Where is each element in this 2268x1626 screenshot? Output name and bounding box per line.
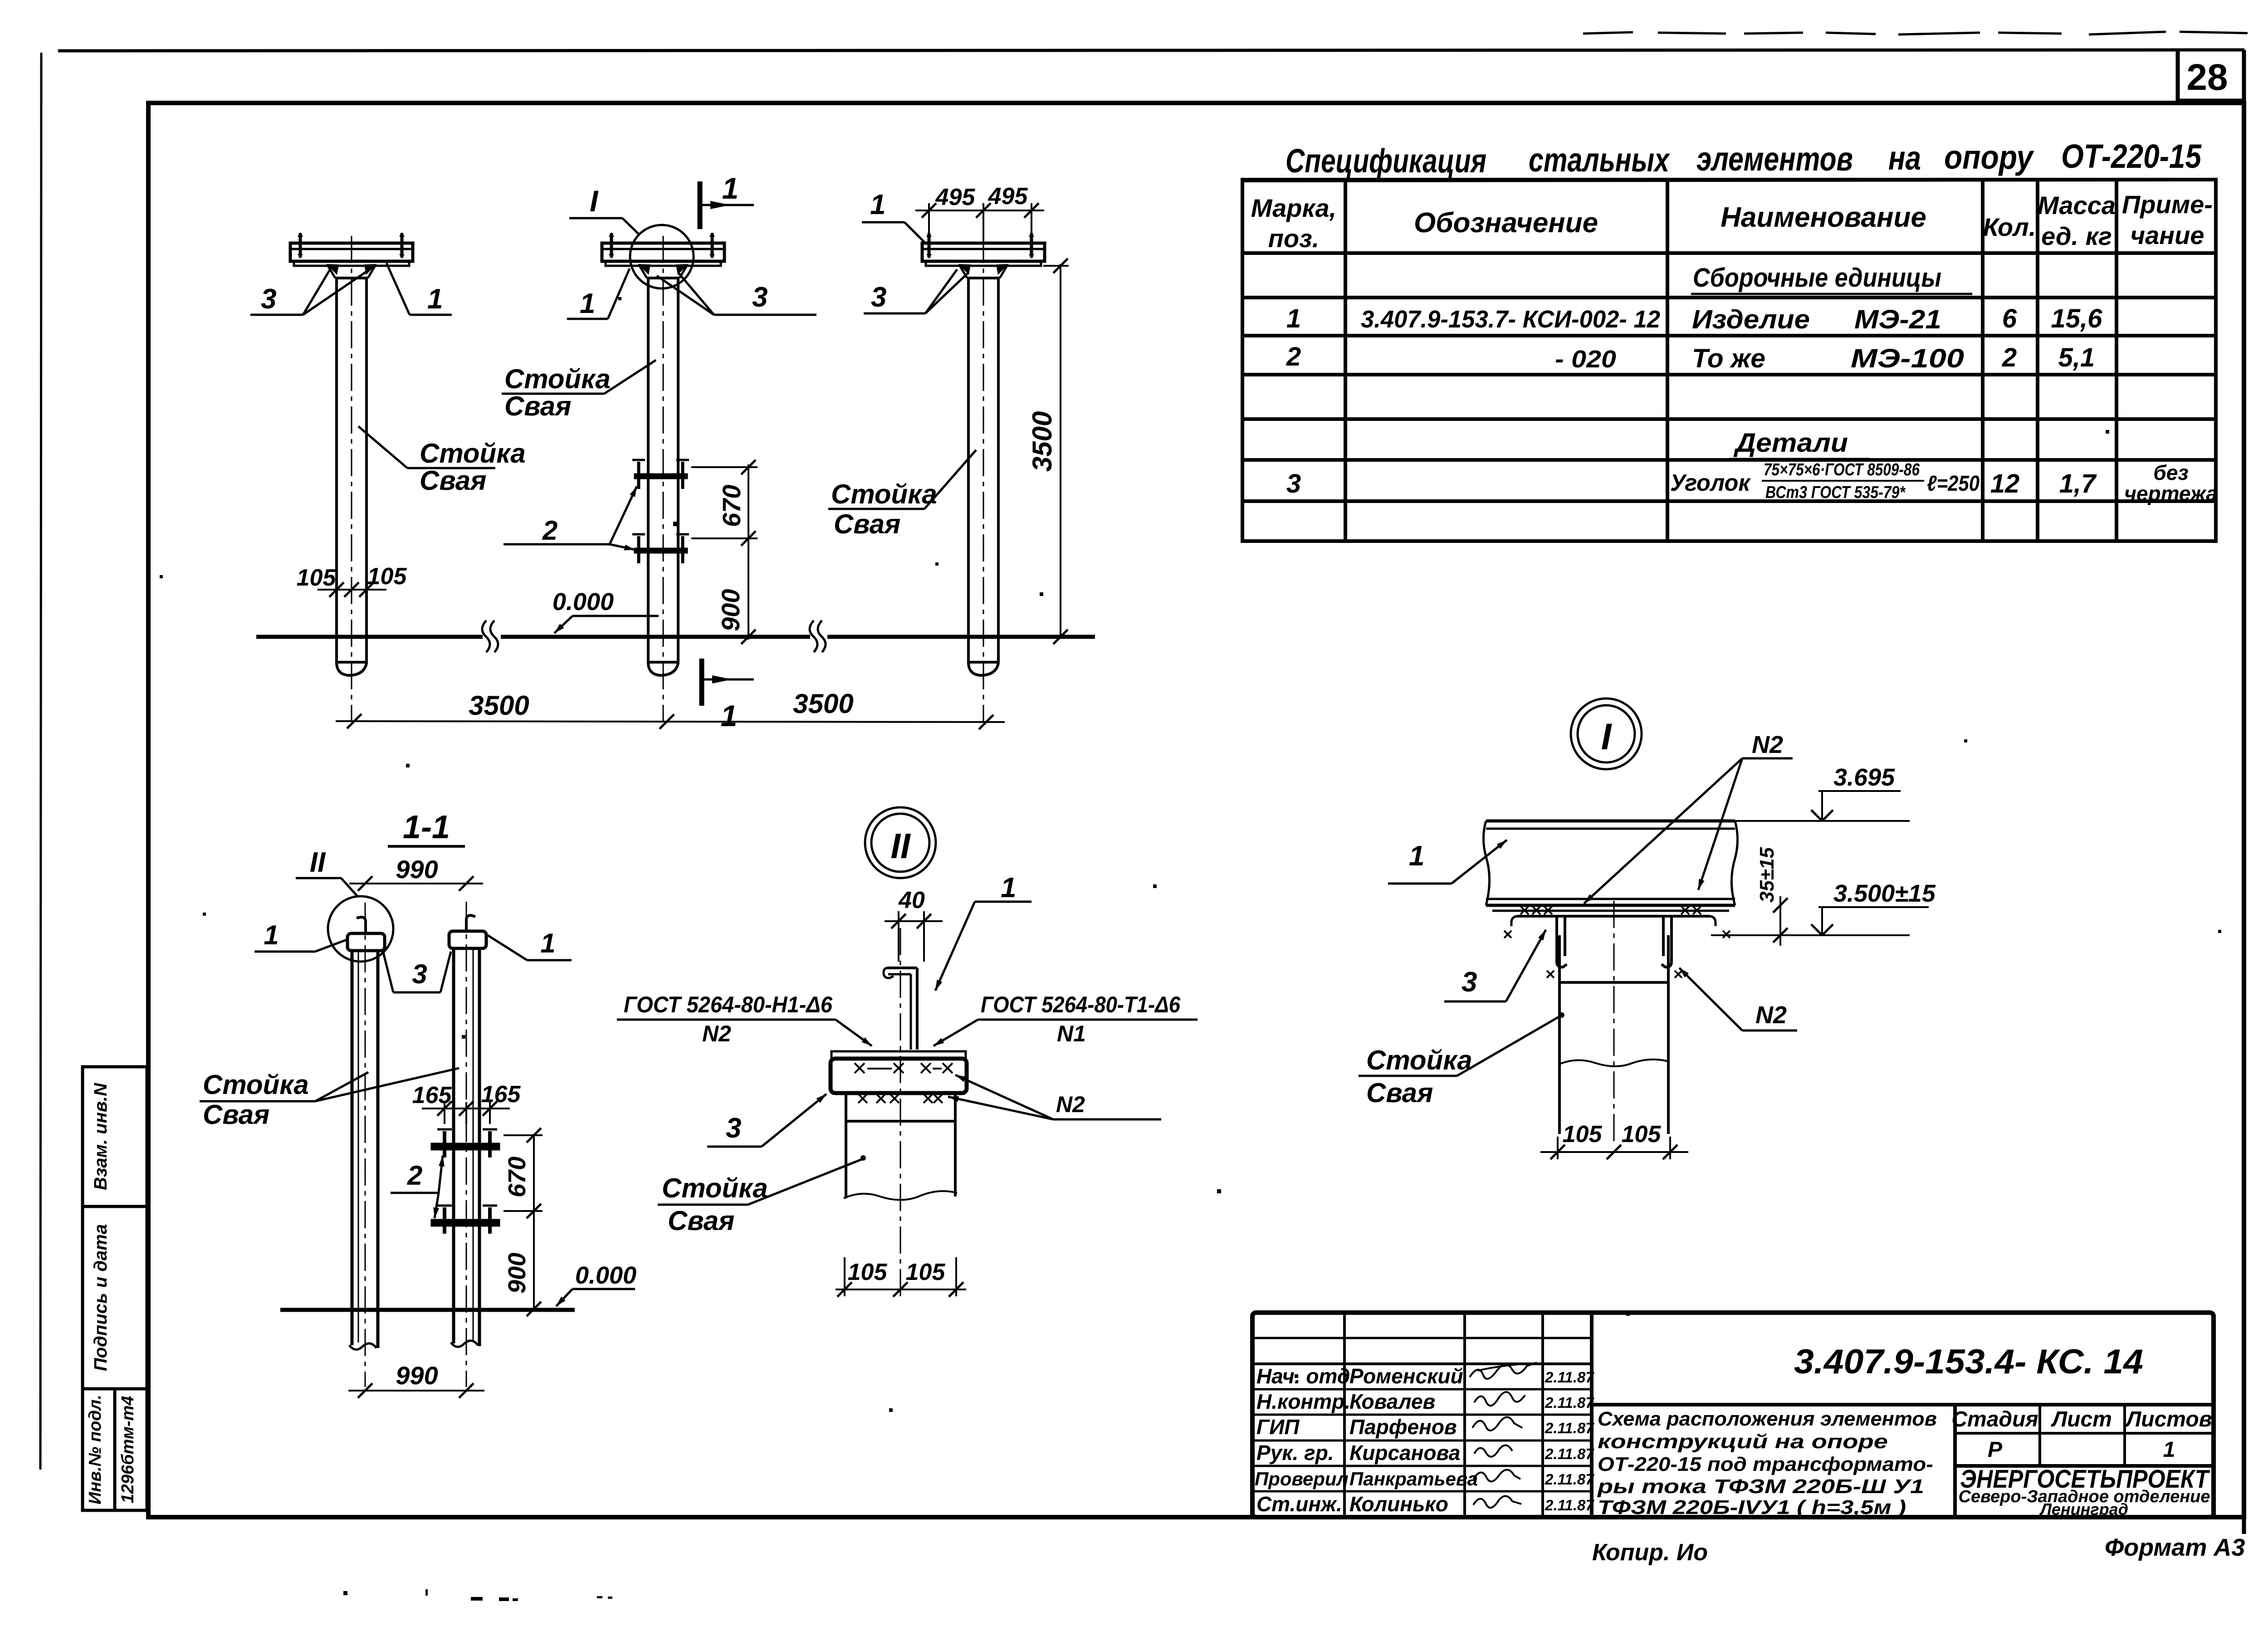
svg-text:1,7: 1,7	[2059, 469, 2097, 498]
svg-text:670: 670	[717, 485, 746, 527]
svg-text:3500: 3500	[1027, 411, 1057, 472]
svg-text:165: 165	[481, 1081, 521, 1108]
svg-text:3: 3	[261, 283, 276, 315]
svg-text:105: 105	[906, 1259, 946, 1285]
svg-text:ГИП: ГИП	[1256, 1415, 1300, 1439]
svg-text:15,6: 15,6	[2051, 304, 2103, 333]
svg-text:Лист: Лист	[2051, 1407, 2112, 1431]
svg-text:Рук. гр.: Рук. гр.	[1256, 1441, 1334, 1465]
svg-text:Стойка: Стойка	[1366, 1045, 1472, 1075]
svg-text:Парфенов: Парфенов	[1349, 1415, 1457, 1439]
svg-text:6: 6	[2002, 304, 2017, 333]
svg-text:1: 1	[722, 171, 739, 205]
svg-text:2: 2	[1286, 342, 1301, 371]
svg-text:ℓ=250: ℓ=250	[1927, 472, 1980, 496]
svg-text:Наименование: Наименование	[1721, 202, 1926, 233]
svg-text:1: 1	[870, 189, 885, 220]
svg-text:Кирсанова: Кирсанова	[1349, 1441, 1460, 1465]
svg-text:То же: То же	[1692, 344, 1765, 373]
svg-text:- 020: - 020	[1555, 346, 1616, 373]
svg-text:3: 3	[726, 1113, 741, 1144]
svg-text:105: 105	[297, 565, 337, 591]
svg-text:ры тока ТФЗМ 220Б-Ш У1: ры тока ТФЗМ 220Б-Ш У1	[1597, 1475, 1924, 1498]
svg-text:2.11.87: 2.11.87	[1545, 1369, 1594, 1386]
svg-text:990: 990	[396, 1361, 438, 1390]
svg-text:Подпись и дата: Подпись и дата	[91, 1224, 111, 1371]
svg-text:3: 3	[1461, 967, 1477, 998]
svg-text:Колинько: Колинько	[1349, 1492, 1448, 1516]
svg-text:ед. кг: ед. кг	[2041, 222, 2112, 250]
svg-text:поз.: поз.	[1268, 224, 1320, 253]
svg-text:1: 1	[1001, 872, 1016, 903]
svg-text:Свая: Свая	[834, 509, 900, 539]
svg-text:N2: N2	[1056, 1092, 1085, 1117]
svg-text:чертежа: чертежа	[2124, 482, 2218, 505]
svg-text:12: 12	[1990, 469, 2020, 498]
svg-text:Стойка: Стойка	[504, 364, 611, 394]
svg-text:Свая: Свая	[203, 1099, 269, 1130]
svg-text:Кол.: Кол.	[1983, 213, 2036, 241]
svg-text:2.11.87: 2.11.87	[1545, 1420, 1594, 1436]
svg-text:35±15: 35±15	[1756, 847, 1778, 903]
svg-text:2.11.87: 2.11.87	[1545, 1471, 1594, 1488]
svg-text:N2: N2	[702, 1021, 731, 1046]
svg-text:3.407.9-153.7- КСИ-002- 12: 3.407.9-153.7- КСИ-002- 12	[1361, 306, 1660, 333]
svg-text:75×75×6·ГОСТ 8509-86: 75×75×6·ГОСТ 8509-86	[1764, 460, 1920, 479]
svg-text:Марка,: Марка,	[1251, 194, 1336, 222]
svg-text:МЭ-100: МЭ-100	[1851, 344, 1964, 373]
svg-text:I: I	[590, 184, 599, 218]
svg-text:ОТ-220-15 под трансформато-: ОТ-220-15 под трансформато-	[1598, 1453, 1933, 1475]
svg-text:Схема расположения элементов: Схема расположения элементов	[1598, 1408, 1937, 1430]
svg-text:105: 105	[1622, 1121, 1662, 1147]
svg-text:1: 1	[721, 699, 738, 732]
svg-text:105: 105	[1563, 1121, 1603, 1147]
svg-text:элементов: элементов	[1696, 140, 1853, 178]
svg-text:МЭ-21: МЭ-21	[1854, 305, 1941, 334]
svg-text:Взам. инв.N: Взам. инв.N	[91, 1083, 111, 1190]
svg-text:Свая: Свая	[668, 1206, 734, 1236]
svg-text:чание: чание	[2131, 221, 2204, 249]
svg-text:Ленинград: Ленинград	[2039, 1500, 2128, 1519]
svg-text:без: без	[2153, 461, 2189, 484]
svg-text:3500: 3500	[793, 688, 853, 719]
svg-text:Панкратьева: Панкратьева	[1349, 1468, 1478, 1489]
svg-text:2: 2	[407, 1160, 422, 1191]
svg-text:1: 1	[1286, 304, 1301, 333]
svg-text:Свая: Свая	[504, 391, 571, 421]
svg-text:0.000: 0.000	[552, 588, 614, 615]
svg-text:Стойка: Стойка	[203, 1069, 309, 1100]
svg-text:Инв.№ подл.: Инв.№ подл.	[86, 1395, 105, 1504]
svg-text:N2: N2	[1755, 1001, 1787, 1029]
svg-text:900: 900	[503, 1253, 531, 1294]
svg-text:28: 28	[2186, 57, 2228, 98]
svg-text:Ковалев: Ковалев	[1349, 1390, 1435, 1413]
svg-text:1296бтм-т4: 1296бтм-т4	[118, 1396, 137, 1503]
svg-text:ТФЗМ 220Б-IVУ1 ( h=3,5м ): ТФЗМ 220Б-IVУ1 ( h=3,5м )	[1598, 1496, 1906, 1519]
svg-text:Уголок: Уголок	[1670, 470, 1751, 496]
svg-text:N2: N2	[1752, 731, 1783, 758]
svg-text:1: 1	[2163, 1438, 2175, 1462]
svg-text:0.000: 0.000	[575, 1262, 636, 1289]
svg-text:2.11.87: 2.11.87	[1545, 1497, 1594, 1514]
svg-text:2.11.87: 2.11.87	[1545, 1445, 1594, 1462]
svg-text:165: 165	[412, 1082, 452, 1108]
svg-text:105: 105	[848, 1259, 888, 1285]
svg-text:2.11.87: 2.11.87	[1545, 1394, 1594, 1411]
svg-text:Приме-: Приме-	[2122, 190, 2213, 219]
svg-text:опору: опору	[1944, 138, 2034, 176]
svg-text:Листов: Листов	[2125, 1407, 2212, 1431]
svg-text:3.407.9-153.4- КС. 14: 3.407.9-153.4- КС. 14	[1794, 1343, 2143, 1381]
svg-text:Изделие: Изделие	[1692, 305, 1810, 334]
svg-text:1: 1	[427, 283, 443, 315]
svg-text:3.500±15: 3.500±15	[1833, 880, 1936, 907]
svg-text:3: 3	[412, 959, 427, 989]
svg-text:II: II	[890, 826, 911, 866]
svg-text:Ст.инж.: Ст.инж.	[1256, 1492, 1342, 1516]
svg-text:II: II	[310, 847, 326, 878]
svg-text:1: 1	[264, 920, 279, 950]
svg-text:3: 3	[871, 282, 886, 313]
svg-text:ВСт3 ГОСТ 535-79*: ВСт3 ГОСТ 535-79*	[1765, 483, 1906, 502]
svg-text:Роменский: Роменский	[1349, 1364, 1463, 1388]
svg-text:990: 990	[396, 855, 438, 884]
svg-text:Стойка: Стойка	[831, 479, 937, 509]
svg-text:670: 670	[503, 1157, 531, 1197]
svg-text:Обозначение: Обозначение	[1414, 207, 1598, 239]
svg-text:Р: Р	[1988, 1438, 2003, 1462]
svg-text:900: 900	[716, 589, 745, 631]
svg-text:Детали: Детали	[1733, 428, 1848, 458]
svg-text:конструкций на опоре: конструкций на опоре	[1598, 1431, 1888, 1453]
svg-text:495: 495	[988, 183, 1028, 210]
svg-text:ГОСТ 5264-80-Т1-Δ6: ГОСТ 5264-80-Т1-Δ6	[981, 992, 1181, 1017]
svg-text:N1: N1	[1057, 1021, 1086, 1046]
svg-text:40: 40	[898, 887, 925, 913]
svg-text:1-1: 1-1	[403, 809, 450, 845]
svg-text:Стойка: Стойка	[420, 438, 526, 469]
svg-text:3: 3	[752, 282, 767, 313]
svg-text:Нач. отд: Нач. отд	[1256, 1364, 1350, 1388]
svg-text:Стойка: Стойка	[662, 1173, 768, 1203]
svg-text:105: 105	[367, 563, 407, 590]
svg-text:ГОСТ 5264-80-Н1-Δ6: ГОСТ 5264-80-Н1-Δ6	[624, 992, 833, 1017]
svg-text:2: 2	[542, 515, 557, 546]
svg-text:Копир. Ио: Копир. Ио	[1592, 1539, 1708, 1566]
svg-text:Спецификация: Спецификация	[1286, 142, 1486, 180]
svg-text:ОТ-220-15: ОТ-220-15	[2061, 137, 2202, 175]
svg-text:3.695: 3.695	[1833, 764, 1895, 791]
svg-text:3500: 3500	[469, 690, 529, 721]
svg-text:1: 1	[540, 928, 555, 958]
svg-text:5,1: 5,1	[2058, 343, 2095, 372]
svg-text:1: 1	[580, 288, 595, 319]
svg-text:на: на	[1888, 139, 1921, 177]
svg-text:Масса: Масса	[2038, 191, 2116, 220]
svg-text:Сборочные единицы: Сборочные единицы	[1693, 263, 1941, 293]
svg-text:Проверил: Проверил	[1255, 1468, 1349, 1489]
svg-text:Свая: Свая	[1366, 1078, 1433, 1108]
svg-text:I: I	[1601, 716, 1613, 757]
svg-text:3: 3	[1286, 469, 1301, 498]
svg-text:495: 495	[935, 184, 976, 210]
svg-text:2: 2	[2002, 343, 2017, 372]
svg-text:Стадия: Стадия	[1951, 1407, 2038, 1431]
svg-text:1: 1	[1409, 840, 1424, 872]
svg-text:Формат А3: Формат А3	[2105, 1534, 2245, 1561]
svg-text:Н.контр.: Н.контр.	[1256, 1390, 1350, 1413]
svg-text:стальных: стальных	[1529, 141, 1670, 179]
svg-text:Свая: Свая	[420, 465, 486, 496]
